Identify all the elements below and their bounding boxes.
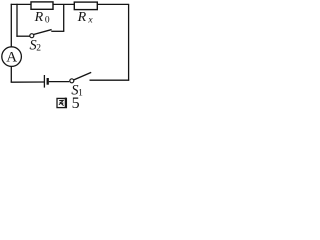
wire ammeter to bottom corner <box>10 66 12 82</box>
wire S2 fixed contact <box>51 30 64 32</box>
svg-text:2: 2 <box>36 44 41 54</box>
wire bottom-right horizontal <box>90 79 130 81</box>
wire battery to switch S1 <box>49 81 70 83</box>
battery long plate <box>43 75 45 88</box>
svg-text:5: 5 <box>72 95 80 112</box>
svg-text:x: x <box>87 15 93 25</box>
switch S2 blade <box>34 30 52 35</box>
switch S1 pivot circle <box>70 79 74 83</box>
wire left outer vertical <box>10 4 12 47</box>
svg-text:A: A <box>6 49 17 65</box>
switch S2 pivot circle <box>30 34 34 38</box>
wire bottom-left horizontal <box>11 81 45 83</box>
svg-text:R: R <box>77 10 87 25</box>
wire top horizontal <box>11 3 130 5</box>
switch S1 blade <box>74 72 91 80</box>
resistor Rx <box>74 2 97 10</box>
wire S2 feed horizontal <box>16 35 29 37</box>
svg-text:0: 0 <box>45 15 50 25</box>
caption glyph 图 <box>57 98 66 108</box>
wire inner-left vertical <box>16 4 18 37</box>
resistor R0 <box>31 2 53 9</box>
svg-text:R: R <box>34 10 44 25</box>
wire middle vertical junction between R0 and Rx <box>63 4 65 31</box>
battery short thick plate <box>47 78 49 85</box>
wire right vertical <box>128 4 130 80</box>
ammeter A <box>2 47 22 67</box>
